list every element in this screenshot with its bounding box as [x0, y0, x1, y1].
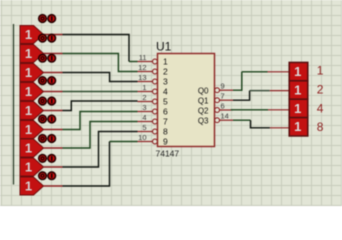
wire box8 to pin 5	[63, 132, 138, 168]
svg-text:4: 4	[317, 101, 324, 115]
wire box7 to pin 4	[63, 122, 138, 149]
indicator pair 3	[39, 54, 56, 62]
pin 14 (output Q3)	[198, 112, 233, 126]
indicator pair 1	[39, 15, 56, 23]
svg-text:1: 1	[294, 101, 301, 116]
wire box6 to pin 3	[63, 112, 138, 130]
svg-text:2: 2	[163, 67, 168, 77]
svg-text:1: 1	[294, 64, 301, 79]
IC U1 74147 body	[158, 54, 215, 147]
indicator pair 2	[39, 34, 56, 42]
pin 6 (output Q2)	[198, 102, 233, 116]
wire box9 to pin 10	[63, 142, 138, 187]
probe 3 stub	[268, 109, 290, 111]
svg-text:14: 14	[221, 112, 229, 121]
logic state D9 (input 9)	[20, 177, 63, 195]
probe 2 box	[289, 81, 308, 99]
indicator pair 9	[39, 172, 56, 180]
pin 2 (input 5)	[138, 93, 169, 107]
probe 3 box	[289, 99, 308, 117]
svg-text:3: 3	[142, 103, 146, 112]
svg-text:6: 6	[163, 107, 168, 117]
wire box1 to pin 11	[63, 35, 138, 62]
probe 2 stub	[270, 90, 290, 92]
svg-text:3: 3	[163, 77, 168, 87]
svg-text:U1: U1	[156, 40, 172, 54]
wire Q1 to probe 2	[233, 91, 270, 101]
svg-text:2: 2	[317, 83, 324, 97]
svg-text:8: 8	[163, 127, 168, 137]
pin 7 (output Q1)	[198, 92, 233, 106]
stray vertical line artifact left edge	[13, 24, 15, 185]
indicator pair 5	[39, 97, 56, 105]
logic state D6 (input 6)	[20, 121, 63, 139]
logic state D3 (input 3)	[20, 64, 63, 82]
svg-text:6: 6	[221, 102, 225, 111]
wire Q2 to probe 3	[231, 109, 268, 111]
svg-text:7: 7	[221, 92, 225, 101]
svg-text:11: 11	[139, 53, 147, 62]
logic state D8 (input 8)	[20, 158, 63, 176]
pin 13 (input 3)	[138, 73, 169, 87]
logic state D5 (input 5)	[20, 102, 63, 120]
svg-text:2: 2	[142, 93, 146, 102]
svg-text:10: 10	[138, 133, 146, 142]
logic state D2 (input 2)	[20, 45, 63, 63]
pin 12 (input 2)	[138, 63, 169, 77]
svg-text:1: 1	[142, 83, 146, 92]
indicator pair 4	[39, 77, 56, 85]
probe 4 box	[289, 118, 308, 136]
probe 4 stub	[270, 127, 290, 129]
logic state D7 (input 7)	[20, 139, 63, 157]
svg-text:Q1: Q1	[198, 97, 209, 106]
svg-text:13: 13	[138, 73, 146, 82]
wire box5 to pin 2	[63, 101, 138, 111]
svg-text:8: 8	[317, 120, 324, 134]
pin 5 (input 8)	[138, 123, 169, 137]
svg-text:1: 1	[294, 82, 301, 97]
probe 1 stub	[268, 71, 290, 73]
wire box4 to pin 1	[63, 91, 138, 93]
pin 3 (input 6)	[138, 103, 169, 117]
svg-text:1: 1	[163, 57, 168, 67]
svg-text:Q0: Q0	[198, 87, 209, 96]
svg-text:Q2: Q2	[198, 107, 209, 116]
pin 4 (input 7)	[138, 113, 169, 127]
pin 1 (input 4)	[138, 83, 169, 97]
probe 1 box	[289, 62, 308, 80]
wire Q3 to probe 4	[233, 120, 270, 128]
svg-text:4: 4	[163, 87, 168, 97]
indicator pair 7	[39, 135, 56, 143]
svg-text:74147: 74147	[156, 149, 180, 159]
svg-text:12: 12	[138, 63, 146, 72]
svg-text:9: 9	[221, 82, 225, 91]
svg-text:7: 7	[163, 117, 168, 127]
indicator pair 8	[39, 155, 56, 163]
wire box2 to pin 12	[63, 54, 138, 72]
svg-text:9: 9	[163, 137, 168, 147]
svg-text:1: 1	[317, 63, 324, 77]
pin 11 (input 1)	[138, 53, 169, 67]
svg-text:4: 4	[142, 113, 146, 122]
wire Q0 to probe 1	[233, 72, 268, 90]
svg-text:5: 5	[142, 123, 146, 132]
pin 10 (input 9)	[138, 133, 169, 147]
indicator pair 6	[39, 115, 56, 123]
logic state D1 (input 1)	[20, 26, 63, 44]
logic state D4 (input 4)	[20, 83, 63, 101]
svg-text:1: 1	[294, 119, 301, 134]
pin 9 (output Q0)	[198, 82, 233, 96]
svg-text:Q3: Q3	[198, 117, 209, 126]
svg-text:5: 5	[163, 97, 168, 107]
wire box3 to pin 13	[63, 73, 138, 82]
